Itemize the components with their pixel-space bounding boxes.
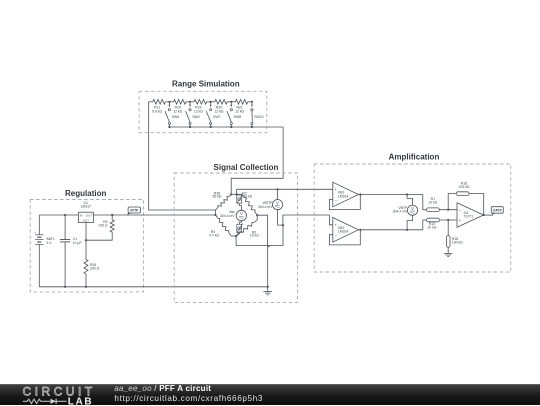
svg-text:LAB: LAB <box>68 396 93 406</box>
svg-text:LM317: LM317 <box>81 205 91 209</box>
svg-text:304.4 mV: 304.4 mV <box>258 205 273 209</box>
svg-text:5.6 kΩ: 5.6 kΩ <box>152 110 162 114</box>
svg-text:OATP: OATP <box>493 209 503 213</box>
svg-text:10 kΩ: 10 kΩ <box>427 226 436 230</box>
svg-text:304.4 mV: 304.4 mV <box>220 214 235 218</box>
svg-text:304.4 mV: 304.4 mV <box>393 210 408 214</box>
svg-text:56 kΩ: 56 kΩ <box>213 195 222 199</box>
svg-text:SW8: SW8 <box>234 115 241 119</box>
svg-text:4.7 kΩ: 4.7 kΩ <box>209 234 219 238</box>
svg-text:100 kΩ: 100 kΩ <box>452 240 463 244</box>
svg-text:Regulation: Regulation <box>65 189 106 198</box>
svg-text:SW6: SW6 <box>172 115 179 119</box>
svg-text:10 kΩ: 10 kΩ <box>428 200 437 204</box>
svg-text:9 V: 9 V <box>47 241 53 245</box>
svg-text:9VTP: 9VTP <box>130 208 139 212</box>
svg-text:SW7: SW7 <box>213 115 220 119</box>
svg-text:ADJ: ADJ <box>83 218 89 222</box>
svg-text:100 kΩ: 100 kΩ <box>459 185 470 189</box>
svg-text:12 kΩ: 12 kΩ <box>173 110 182 114</box>
svg-text:LM324: LM324 <box>338 194 348 198</box>
svg-text:10 µF: 10 µF <box>73 241 82 245</box>
svg-text:10 kΩ: 10 kΩ <box>250 233 259 237</box>
svg-text:12 kΩ: 12 kΩ <box>235 110 244 114</box>
svg-text:TL071: TL071 <box>464 215 474 219</box>
svg-text:220 kΩ: 220 kΩ <box>242 195 253 199</box>
svg-text:SW2: SW2 <box>192 115 199 119</box>
svg-text:Amplification: Amplification <box>389 153 440 162</box>
svg-text:+: + <box>34 230 36 234</box>
svg-text:SW10: SW10 <box>254 115 263 119</box>
svg-text:IN: IN <box>80 214 83 218</box>
svg-text:Range Simulation: Range Simulation <box>172 79 240 88</box>
svg-text:330 Ω: 330 Ω <box>90 266 100 270</box>
svg-text:LM324: LM324 <box>338 230 348 234</box>
svg-text:Signal Collection: Signal Collection <box>214 163 279 172</box>
svg-text:12 kΩ: 12 kΩ <box>194 110 203 114</box>
svg-text:220 Ω: 220 Ω <box>98 223 108 227</box>
svg-text:OUT: OUT <box>86 213 93 217</box>
svg-text:12 kΩ: 12 kΩ <box>215 110 224 114</box>
